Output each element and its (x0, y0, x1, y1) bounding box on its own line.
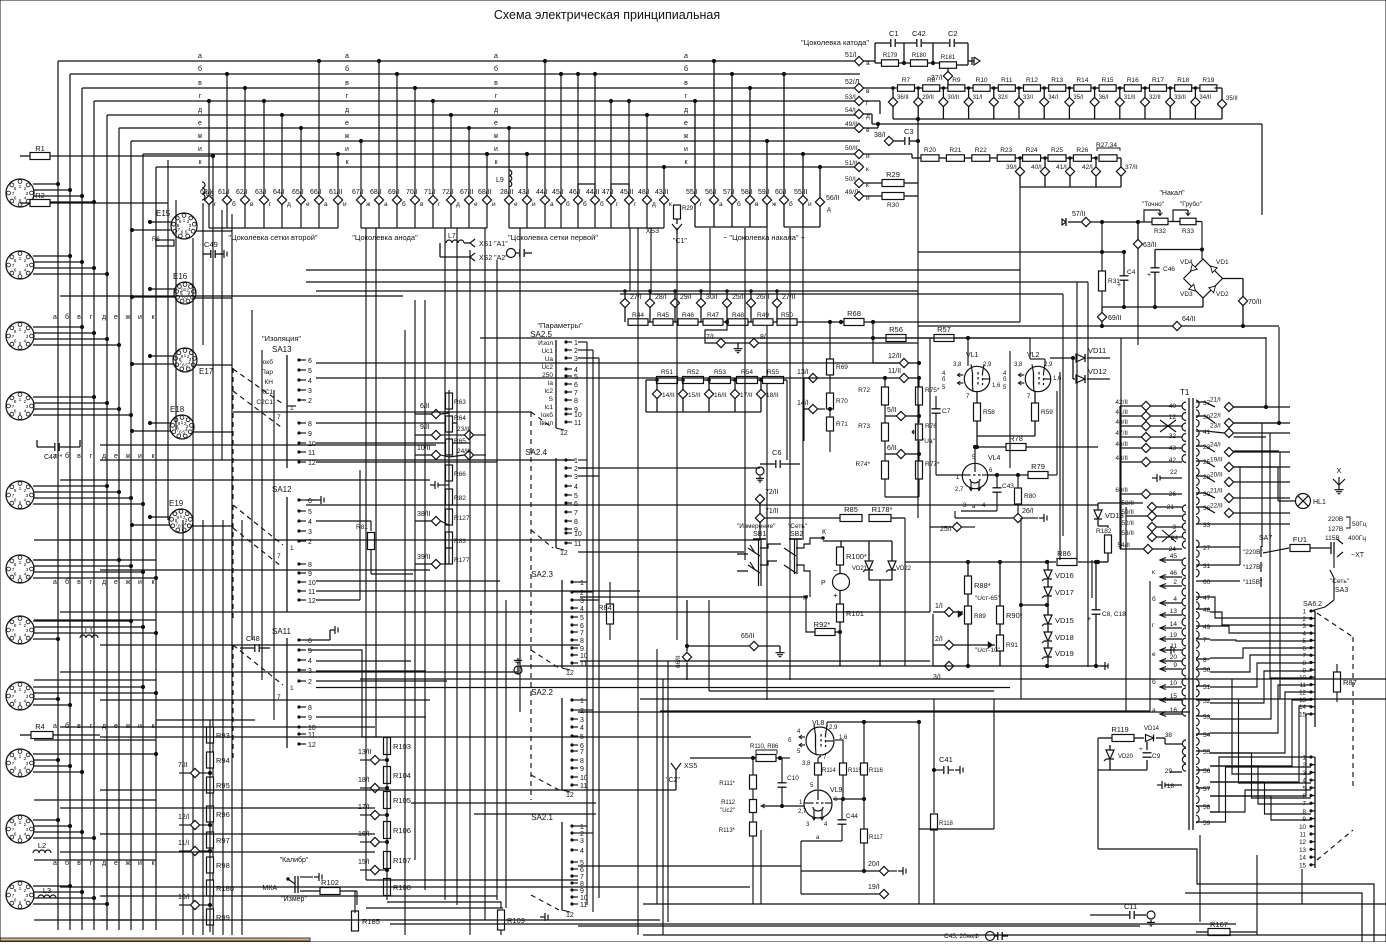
wire x761 bottom (760, 830, 762, 904)
svg-text:9: 9 (176, 515, 179, 521)
resistor R23 (997, 155, 1015, 162)
resistor R22 (972, 155, 990, 162)
resistor R92* (815, 629, 835, 636)
svg-text:HL1: HL1 (1313, 499, 1326, 506)
svg-text:12/II: 12/II (888, 353, 902, 360)
svg-text:8: 8 (580, 758, 584, 765)
svg-text:1: 1 (19, 327, 22, 333)
svg-text:20/I: 20/I (868, 861, 880, 868)
svg-text:VD16: VD16 (1055, 571, 1074, 580)
svg-text:68/I: 68/I (370, 189, 382, 196)
svg-text:R66: R66 (454, 471, 466, 478)
svg-text:R30: R30 (887, 202, 899, 209)
svg-text:R46: R46 (682, 312, 694, 319)
resistor R78 (1006, 444, 1026, 451)
svg-text:2,7: 2,7 (955, 487, 964, 493)
svg-text:д: д (684, 107, 688, 114)
terminal 10/II (431, 450, 440, 459)
svg-text:ж: ж (126, 453, 131, 460)
terminal 53/II (1147, 532, 1156, 541)
wire VL9 cathode bottom (801, 840, 842, 842)
svg-text:SB1: SB1 (753, 531, 766, 538)
wire bottom left verticals (182, 520, 184, 935)
transformer tap 19 (1160, 638, 1182, 640)
terminal 61/I (222, 195, 231, 204)
svg-text:13: 13 (1170, 608, 1178, 615)
wire long horizontals left-middle (306, 269, 1020, 271)
svg-text:4: 4 (308, 658, 312, 665)
svg-text:4: 4 (574, 484, 578, 491)
switch SA2.2 (561, 698, 563, 790)
svg-text:15/II: 15/II (688, 392, 701, 399)
svg-text:и: и (138, 579, 142, 586)
svg-text:в: в (494, 80, 498, 87)
terminal 35/I (1065, 97, 1074, 106)
tube VL9 (804, 790, 832, 818)
svg-text:3: 3 (1303, 623, 1307, 630)
inductor L9 (509, 170, 512, 187)
svg-text:б: б (198, 65, 202, 73)
wire E15 taps (150, 221, 172, 223)
resistor R11 (998, 85, 1015, 92)
svg-text:8: 8 (14, 689, 17, 695)
tube socket left 7 (6, 616, 34, 644)
svg-text:16: 16 (1170, 707, 1178, 714)
resistor R70 (827, 393, 834, 409)
terminal 42/I (1091, 167, 1100, 176)
svg-text:5: 5 (308, 509, 312, 516)
resistor R103 (384, 738, 391, 755)
svg-text:C48: C48 (246, 634, 260, 643)
svg-text:11: 11 (580, 783, 587, 790)
resistor R65 (446, 439, 453, 455)
terminal 72/II (755, 494, 764, 503)
svg-text:5: 5 (185, 229, 188, 235)
svg-text:VD22: VD22 (896, 566, 912, 572)
terminal 9/II (431, 430, 440, 439)
svg-text:и: и (138, 314, 142, 321)
terminal 8/I (749, 338, 758, 347)
svg-text:19: 19 (1170, 632, 1178, 639)
svg-text:VD4: VD4 (1180, 259, 1193, 266)
switch SA11 (286, 638, 288, 748)
inductor L7 (446, 240, 464, 243)
svg-text:б: б (788, 738, 792, 744)
svg-text:43/I: 43/I (518, 189, 530, 196)
terminal 29/I (670, 298, 679, 307)
diode VD15 (1044, 615, 1052, 624)
wire катод caps drops (874, 43, 876, 61)
svg-text:70/II: 70/II (1248, 299, 1262, 306)
svg-text:VD19: VD19 (1055, 649, 1074, 658)
svg-text:SA2.3: SA2.3 (531, 570, 553, 579)
capacitor C2 (949, 39, 951, 47)
tube socket left 11 (6, 881, 34, 909)
resistor R127 (446, 509, 453, 525)
diode VD17 (1044, 587, 1052, 596)
svg-text:49: 49 (1203, 624, 1211, 631)
diode VD12 (1076, 375, 1085, 383)
ground VD column (1100, 665, 1105, 667)
svg-text:и: и (532, 201, 536, 208)
svg-text:SA11: SA11 (272, 627, 292, 636)
tube socket left 10 (6, 815, 34, 843)
terminal 44/I (540, 195, 549, 204)
svg-text:S: S (549, 396, 554, 403)
terminal 25/II (722, 298, 731, 307)
terminal 14/II (652, 389, 661, 398)
svg-text:27/II: 27/II (782, 294, 796, 301)
svg-text:R98: R98 (216, 861, 230, 870)
svg-text:3: 3 (580, 838, 584, 845)
svg-text:R25: R25 (1051, 147, 1063, 154)
svg-text:12: 12 (566, 912, 574, 919)
svg-text:R74*: R74* (856, 461, 871, 468)
svg-text:1,6: 1,6 (1053, 376, 1062, 382)
svg-text:"Параметры": "Параметры" (537, 321, 583, 330)
terminal 49/II (854, 123, 863, 132)
svg-text:3: 3 (580, 717, 584, 724)
svg-text:51: 51 (1203, 684, 1211, 691)
svg-text:12: 12 (566, 792, 574, 799)
svg-text:C43: C43 (1002, 483, 1014, 490)
wire bottom verticals (662, 679, 664, 935)
switch SA2.3 (561, 580, 563, 668)
svg-text:12: 12 (560, 550, 568, 557)
tube VL8 (806, 727, 834, 755)
svg-text:T1: T1 (1180, 388, 1190, 397)
svg-text:R88*: R88* (974, 581, 991, 590)
svg-text:69/II: 69/II (1108, 315, 1122, 322)
ground SA2.1 pin12 (540, 916, 545, 918)
svg-text:R64: R64 (454, 415, 466, 422)
svg-text:R89: R89 (974, 613, 986, 620)
svg-text:д: д (287, 201, 291, 208)
svg-text:Iокб: Iокб (261, 358, 273, 366)
svg-text:Iокб: Iокб (541, 411, 553, 419)
svg-text:Iс2: Iс2 (544, 388, 553, 395)
resistor R77* (916, 461, 923, 479)
terminal 43/II (659, 195, 668, 204)
resistor R118 (931, 814, 938, 830)
svg-text:62/I: 62/I (236, 189, 248, 196)
svg-text:R100*: R100* (846, 552, 867, 561)
resistor R7 (898, 85, 915, 92)
capacitor C8 C18 (1092, 609, 1101, 611)
svg-text:R18: R18 (1177, 77, 1189, 84)
svg-text:"Точно": "Точно" (1142, 201, 1165, 208)
svg-text:45/I: 45/I (552, 189, 564, 196)
svg-text:С47**: С47** (44, 454, 63, 461)
svg-text:а: а (550, 201, 554, 208)
ground circle C6 (756, 467, 764, 475)
terminal 11/I (190, 846, 199, 855)
svg-text:3: 3 (308, 388, 312, 395)
svg-text:7: 7 (1303, 653, 1307, 660)
svg-text:С11: С11 (1124, 902, 1137, 911)
svg-text:27/I: 27/I (630, 294, 642, 301)
resistor R64 (446, 416, 453, 432)
svg-text:в: в (77, 579, 81, 586)
svg-text:R83: R83 (454, 538, 466, 545)
resistor R75* (916, 387, 923, 405)
svg-text:5: 5 (19, 900, 22, 906)
svg-text:2: 2 (308, 398, 312, 405)
svg-text:R73: R73 (858, 423, 870, 430)
wire SA11 pin5 to R103 (308, 650, 381, 737)
svg-text:R50: R50 (781, 312, 793, 319)
resistor R181 (940, 62, 957, 69)
terminal 31/II (1115, 97, 1124, 106)
svg-text:8: 8 (308, 562, 312, 569)
terminal 21/II (1224, 493, 1233, 502)
terminal 17/I (370, 810, 379, 819)
svg-text:5: 5 (308, 368, 312, 375)
svg-text:б: б (1003, 377, 1007, 383)
svg-text:в: в (198, 80, 202, 87)
tube socket E16 (174, 282, 196, 304)
svg-text:R92*: R92* (814, 620, 831, 629)
svg-text:и: и (492, 201, 496, 208)
svg-text:"Uст-10": "Uст-10" (975, 647, 1001, 654)
resistor R180 (911, 60, 928, 67)
svg-text:C49: C49 (204, 240, 218, 249)
svg-text:к: к (866, 166, 869, 173)
wire left vertical bundle (57, 61, 59, 930)
svg-text:г: г (90, 314, 93, 321)
transformer T1 primary winding middle (1182, 505, 1186, 512)
svg-text:3/I: 3/I (933, 674, 941, 681)
svg-text:18/I: 18/I (358, 777, 370, 784)
svg-text:R104: R104 (393, 771, 411, 780)
svg-text:11/II: 11/II (888, 368, 901, 375)
terminal 42/II (1141, 401, 1150, 410)
svg-text:R177: R177 (454, 557, 470, 564)
terminal 69/I (392, 195, 401, 204)
svg-text:R16: R16 (1127, 77, 1139, 84)
svg-text:11: 11 (308, 589, 315, 596)
wire E16 taps (150, 288, 175, 290)
svg-text:R116: R116 (869, 768, 884, 774)
svg-text:R182: R182 (1096, 528, 1112, 535)
meter P (833, 574, 850, 591)
svg-text:71/I: 71/I (424, 189, 436, 196)
svg-text:6: 6 (1303, 645, 1307, 652)
wire g3 staples (578, 184, 595, 195)
svg-text:"Калибр": "Калибр" (280, 856, 309, 864)
svg-text:R77*: R77* (925, 461, 940, 468)
svg-text:48/II: 48/II (1115, 455, 1128, 462)
svg-text:2: 2 (308, 679, 312, 686)
svg-text:г: г (90, 453, 93, 460)
svg-text:R97: R97 (216, 836, 230, 845)
svg-text:С46: С46 (1163, 266, 1175, 273)
terminal 6/II (431, 409, 440, 418)
svg-text:7: 7 (277, 414, 281, 421)
svg-text:1: 1 (290, 545, 294, 552)
terminal 60/II (1141, 489, 1150, 498)
svg-text:10: 10 (574, 531, 582, 538)
svg-text:31/II: 31/II (1124, 95, 1136, 101)
svg-text:L7: L7 (448, 233, 456, 240)
resistor R31 (1099, 271, 1106, 291)
svg-text:65/II: 65/II (741, 633, 755, 640)
wire VL4 cathode bottom (961, 510, 997, 512)
svg-text:С8, С18: С8, С18 (1102, 611, 1126, 618)
connector XS5 (671, 763, 681, 770)
svg-text:е: е (474, 201, 478, 208)
svg-text:"Измер": "Измер" (281, 896, 307, 903)
svg-text:12: 12 (308, 598, 316, 605)
resistor R98 (207, 857, 214, 873)
svg-text:R22: R22 (975, 147, 987, 154)
terminal 41/I (1065, 167, 1074, 176)
svg-text:г: г (685, 93, 688, 100)
terminal 55/II (798, 195, 807, 204)
wire SA2.5 dashed (530, 412, 532, 800)
svg-text:7: 7 (580, 874, 584, 881)
resistor R29 (882, 180, 904, 187)
svg-text:R9: R9 (952, 77, 961, 84)
resistor R66 (446, 465, 453, 481)
svg-text:С44: С44 (846, 813, 858, 820)
capacitor C49 (210, 250, 212, 258)
svg-text:R114: R114 (822, 768, 837, 774)
svg-text:11/I: 11/I (178, 840, 189, 847)
terminal 18/I (370, 783, 379, 792)
terminal 69/II (1097, 312, 1106, 321)
svg-text:60: 60 (1203, 579, 1211, 586)
resistor R83 (446, 532, 453, 548)
svg-text:R4: R4 (35, 722, 45, 731)
wire R7 row (864, 87, 898, 89)
terminal 68/II (482, 195, 491, 204)
svg-text:R78: R78 (1009, 434, 1023, 443)
svg-text:VD14: VD14 (1144, 726, 1160, 732)
svg-text:4: 4 (24, 196, 27, 202)
terminal 18/II (756, 389, 765, 398)
svg-text:34/I: 34/I (1048, 95, 1058, 101)
wire SA11 dashed (232, 645, 234, 760)
terminal 66/I (314, 195, 323, 204)
svg-text:г: г (199, 93, 202, 100)
terminal 64/II (1172, 321, 1181, 330)
resistor R117 (861, 829, 868, 843)
svg-text:R59: R59 (1041, 409, 1053, 416)
svg-text:115В: 115В (1325, 535, 1340, 542)
wire terminal group bus 3 (509, 227, 664, 229)
svg-text:1: 1 (19, 886, 22, 892)
ground R44 row (726, 342, 750, 344)
svg-text:2: 2 (1173, 579, 1177, 586)
svg-text:а: а (719, 201, 723, 208)
svg-text:"Цоколевка анода": "Цоколевка анода" (352, 233, 418, 242)
svg-text:Iс1: Iс1 (544, 404, 553, 411)
svg-text:67/I: 67/I (352, 189, 364, 196)
tube socket left 9 (6, 749, 34, 777)
diode VD21 (865, 561, 873, 570)
svg-text:40/II: 40/II (1115, 419, 1128, 426)
svg-text:11: 11 (580, 902, 587, 909)
wire vertical 1102 (1101, 222, 1103, 307)
svg-text:"Сеть": "Сеть" (788, 523, 808, 530)
wire R63 column spine (448, 390, 450, 564)
tube socket E18 (170, 415, 194, 439)
svg-text:8: 8 (574, 519, 578, 526)
svg-text:10: 10 (1299, 824, 1306, 831)
resistor R18 (1175, 85, 1192, 92)
svg-text:1: 1 (19, 397, 22, 403)
svg-text:и: и (343, 201, 347, 208)
svg-text:б: б (65, 578, 69, 586)
svg-text:5: 5 (19, 834, 22, 840)
svg-text:65/I: 65/I (292, 189, 304, 196)
svg-text:SA12: SA12 (272, 485, 292, 494)
potentiometer R33 (1180, 218, 1196, 225)
svg-text:б: б (232, 200, 236, 208)
terminal 60/I (779, 195, 788, 204)
svg-text:E16: E16 (173, 272, 188, 281)
svg-text:R21: R21 (949, 147, 961, 154)
svg-text:9: 9 (1173, 662, 1177, 669)
svg-text:32/II: 32/II (1149, 95, 1161, 101)
svg-text:55: 55 (1203, 749, 1211, 756)
transformer tap 9 (1160, 668, 1182, 670)
svg-text:12/I: 12/I (178, 814, 190, 821)
terminal 22/I (1224, 418, 1233, 427)
capacitor C42 (916, 39, 918, 47)
svg-text:10: 10 (574, 412, 582, 419)
terminal 35/II (1217, 99, 1226, 108)
ground-cap R66 left (430, 484, 435, 486)
wire VL9 grid arrow (762, 805, 804, 807)
transformer tap 11 (1160, 649, 1182, 651)
svg-text:в: в (77, 314, 81, 321)
svg-text:7: 7 (1203, 637, 1207, 644)
resistor R10 (973, 85, 990, 92)
svg-text:L2: L2 (38, 841, 46, 850)
wire R88 block (967, 562, 969, 576)
svg-text:72/I: 72/I (442, 189, 454, 196)
terminal 47/I (606, 195, 615, 204)
terminal 12/I (190, 820, 199, 829)
svg-text:31/I: 31/I (973, 95, 983, 101)
svg-text:14/II: 14/II (662, 392, 675, 399)
terminal 67/I (356, 195, 365, 204)
diode VD16 (1044, 570, 1052, 579)
terminal 21/I (1224, 402, 1233, 411)
svg-text:20/II: 20/II (1210, 472, 1223, 479)
svg-text:59: 59 (1203, 820, 1211, 827)
svg-text:47/I: 47/I (602, 189, 614, 196)
svg-text:3,8: 3,8 (953, 362, 962, 368)
wire right top risers (1234, 406, 1266, 408)
svg-text:L1: L1 (85, 626, 93, 635)
svg-text:61/I: 61/I (218, 189, 230, 196)
terminal 5/II (896, 411, 905, 420)
tube socket E15 (171, 213, 197, 239)
svg-text:R57: R57 (937, 325, 951, 334)
svg-text:47/II: 47/II (1115, 430, 1128, 437)
svg-text:4: 4 (188, 227, 191, 233)
terminal 32/II (1140, 97, 1149, 106)
svg-text:5: 5 (19, 411, 22, 417)
svg-text:R71: R71 (836, 421, 848, 428)
resistor R81 (368, 533, 375, 550)
svg-text:е: е (514, 201, 518, 208)
svg-text:"Uст-65": "Uст-65" (975, 595, 1001, 602)
wire terminal group bus 1 (209, 227, 338, 229)
